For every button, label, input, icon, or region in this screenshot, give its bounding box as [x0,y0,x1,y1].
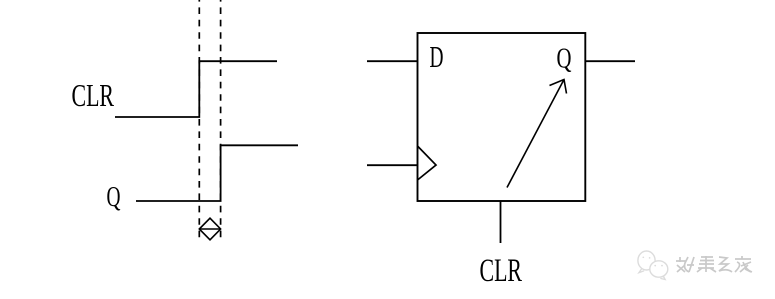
char 3 [719,257,732,272]
wire clock input [367,164,418,166]
char 4 [735,256,752,272]
arrow (state transition) [507,80,567,188]
watermark logo bubbles [638,251,668,280]
svg-text:Q: Q [557,43,572,75]
wire Q output [585,60,635,62]
node t2 dashed timeline [220,0,222,241]
svg-text:CLR: CLR [480,253,523,289]
clock edge triangle [418,146,437,180]
char 1 [676,257,694,272]
wire CLR stub [500,201,502,243]
svg-text:Q: Q [107,182,121,213]
flip-flop U1 body [418,33,586,201]
interval marker double arrow [199,218,220,240]
svg-text:D: D [430,39,444,74]
node t1 dashed timeline [198,0,200,241]
wire Q waveform [136,145,298,201]
char 2 [697,256,716,272]
watermark text (stylized) [676,256,752,272]
svg-text:CLR: CLR [72,77,115,113]
wire D input [367,60,418,62]
wire CLR waveform [115,61,277,117]
